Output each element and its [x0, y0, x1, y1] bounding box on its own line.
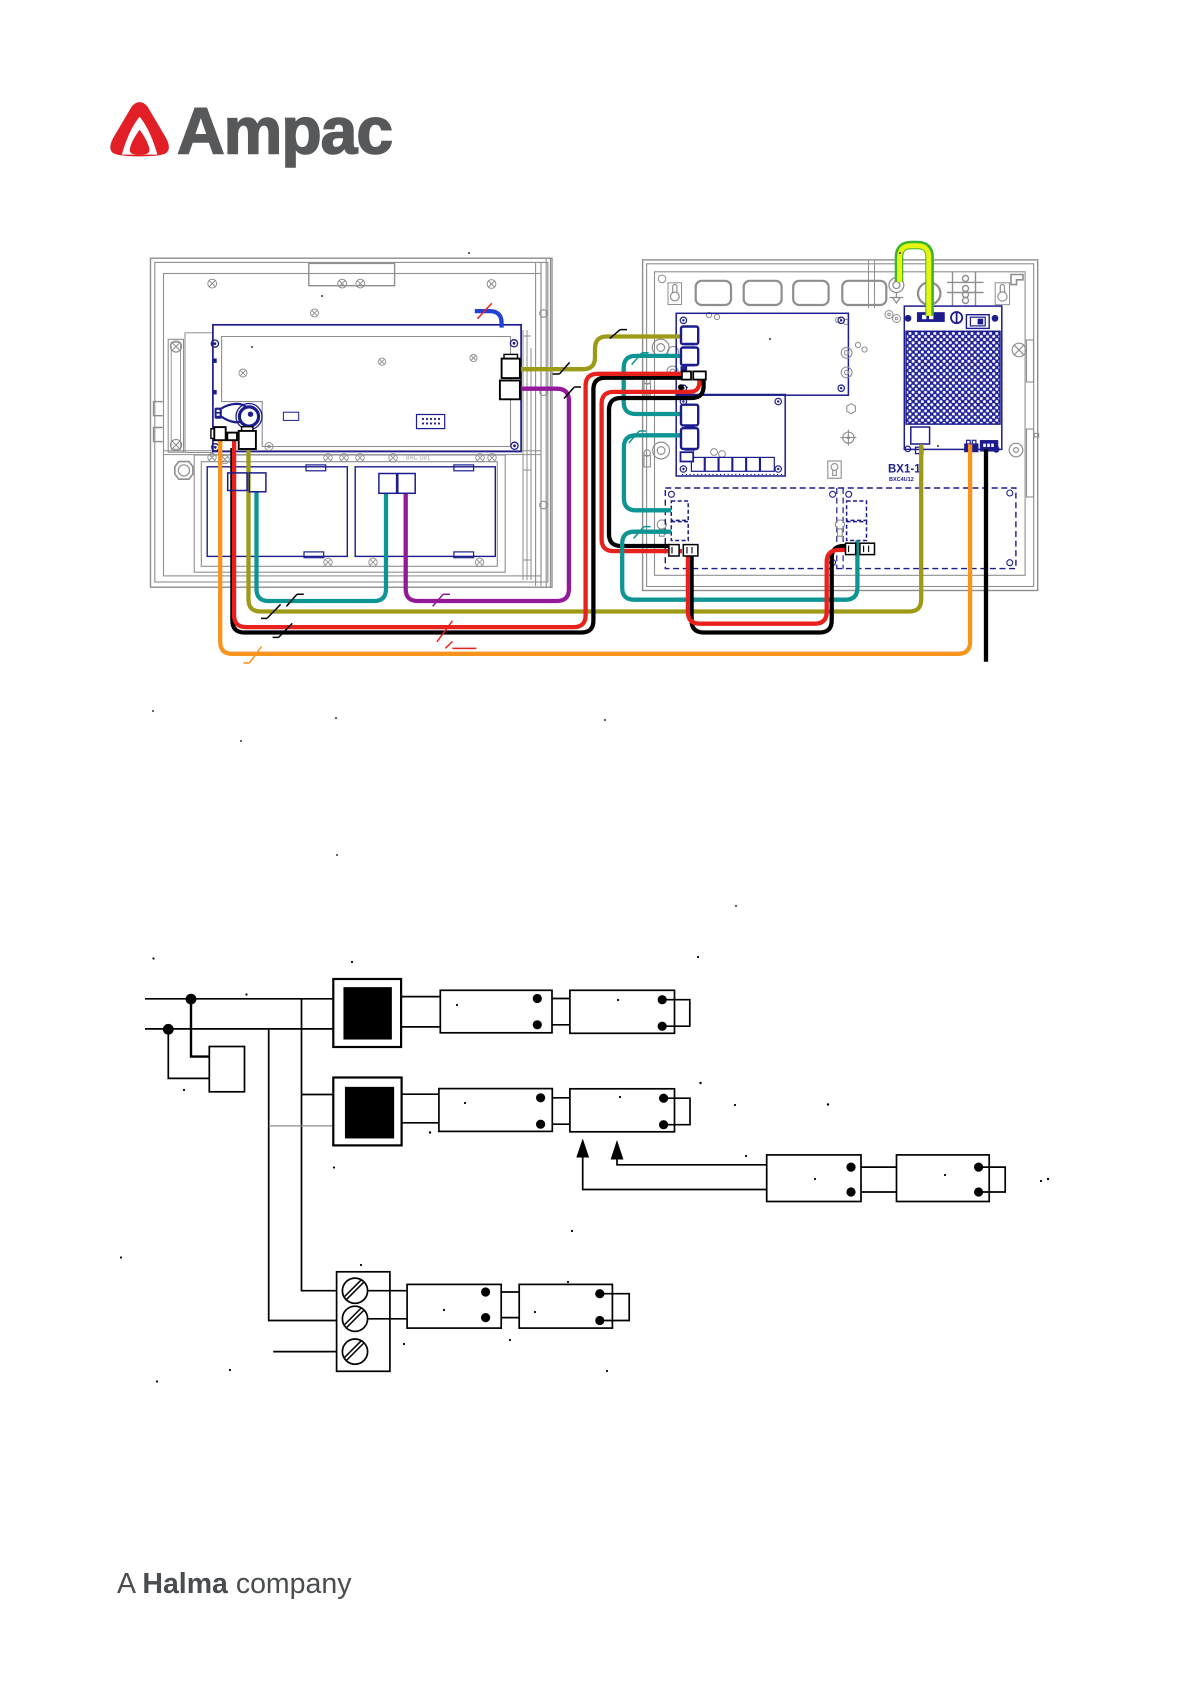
wire from junction 1 to EOL box	[191, 999, 209, 1057]
PCB mount hole BR	[511, 442, 518, 449]
battery tray outer	[194, 455, 505, 572]
terminal screw 1	[342, 1278, 367, 1303]
battery 1 top tab	[306, 465, 326, 471]
battery 2	[355, 467, 495, 557]
top-right screw	[487, 280, 496, 289]
wire module2 top input	[302, 1094, 334, 1096]
marker on purple	[564, 387, 581, 399]
detector base 1A	[440, 990, 552, 1033]
wire orange aux power	[220, 440, 970, 654]
enclosure outer border	[151, 258, 553, 587]
battery2 spade red	[846, 543, 856, 554]
rail screw top	[170, 341, 181, 352]
panel2 small connector below c5	[681, 452, 694, 461]
enclosure mid border	[155, 262, 548, 582]
keyhole left	[668, 283, 682, 305]
PSU switch	[966, 315, 989, 329]
PCB right connector cc2	[500, 381, 520, 400]
wire 2A to 2B	[552, 1098, 570, 1124]
screws left of PSU	[885, 311, 901, 323]
cable break markers	[243, 303, 650, 663]
battery2 spade black	[860, 543, 875, 554]
terminal screw 2	[342, 1306, 367, 1331]
detector base 1B	[570, 990, 675, 1033]
gray screw right of PCB bottom	[265, 443, 273, 451]
right washer lower	[1009, 443, 1023, 457]
wire loop - line 2	[145, 1028, 333, 1030]
panel2 connector c5	[681, 428, 698, 449]
battery 1	[207, 467, 347, 557]
CAD point specks	[120, 956, 1049, 1383]
enclosure outer border	[643, 260, 1038, 591]
wire TB1 to detector 4A bottom	[368, 1318, 408, 1320]
tab screw left	[338, 279, 347, 288]
enclosure mid border	[647, 264, 1034, 587]
marker on olive O1 upper	[610, 330, 627, 339]
panel screw above PCB	[311, 309, 319, 317]
left wall stud 1	[644, 378, 650, 395]
PSU top corner screws	[905, 315, 912, 322]
sounder horn	[215, 404, 262, 430]
detector base 2B	[570, 1089, 675, 1132]
wire earth green-yellow	[899, 245, 930, 316]
PCB screws gray	[239, 354, 477, 377]
hinge bolt 2	[540, 388, 548, 396]
keyhole right	[995, 283, 1009, 305]
detector base 2A	[439, 1089, 552, 1132]
navy latch below c2	[681, 366, 688, 372]
center target circle	[840, 430, 856, 446]
left PCB terminal t1	[211, 429, 214, 439]
Ampac flame icon	[110, 102, 169, 156]
battery 2 top tab	[454, 465, 474, 471]
hinge bolt 1	[540, 310, 548, 318]
battery dashed divider	[837, 488, 843, 569]
center hexagon	[847, 404, 856, 414]
battery1 terminal A	[228, 473, 247, 491]
node junction 2	[163, 1024, 174, 1035]
detector base 3B	[897, 1155, 990, 1202]
small screw pair B	[706, 312, 719, 319]
PCB2 loop board	[676, 395, 785, 477]
bottom center screws	[711, 449, 726, 458]
wire teal TL battery link left panel	[257, 492, 387, 601]
wire olive O2 PCB to PSU via bottom	[249, 444, 922, 611]
PCB display plate (gray)	[222, 337, 511, 447]
rail screw bottom	[170, 439, 181, 450]
knockout circle center dot	[928, 292, 931, 295]
small washer near c3	[667, 366, 678, 377]
wire black PSU dc down	[984, 449, 988, 661]
battery dashed outline	[665, 488, 1016, 569]
enclosure inner frame	[164, 274, 542, 576]
wire purple battery2 to PCB	[406, 389, 569, 601]
right panel navy parts	[665, 313, 1016, 568]
wire black battery link	[692, 546, 852, 633]
wire red battery link	[688, 550, 848, 624]
right hinge plates	[1027, 340, 1039, 497]
isolator module M1	[333, 979, 401, 1047]
panel2 connector c4	[681, 405, 698, 426]
wire TB1 to detector 4A top	[368, 1290, 408, 1292]
hinge column right side	[536, 258, 551, 587]
EOL loop 3B	[979, 1167, 1006, 1192]
svg-text:A Halma company: A Halma company	[117, 1568, 352, 1600]
knockout 4	[842, 281, 886, 305]
fold line screws	[208, 453, 496, 463]
PCB1 right posts	[841, 347, 852, 377]
wire blue network stub	[475, 311, 502, 328]
marker on teal TL	[286, 594, 303, 606]
PCB1 controller board	[676, 313, 848, 395]
left mounting rail	[168, 339, 183, 452]
battery tray inner	[201, 462, 497, 567]
marker on olive O2	[261, 604, 281, 618]
PCB2 terminal strip	[691, 457, 774, 471]
PSU small lower box	[916, 447, 923, 453]
PSU top connector	[918, 313, 944, 321]
knockout 1	[696, 281, 731, 305]
svg-text:Ampac: Ampac	[177, 94, 392, 168]
wire module2 bottom input	[269, 1125, 334, 1127]
earth symbol	[890, 293, 904, 304]
power supply unit	[904, 306, 1002, 454]
gland plate divider lines	[869, 260, 875, 308]
panel2 connector c1	[681, 327, 698, 345]
earth terminal ladder	[947, 272, 984, 307]
wall bracket upper	[154, 402, 163, 416]
terminal screw 3	[342, 1339, 367, 1364]
marker on teal T3	[634, 527, 651, 539]
hinge bolt 3	[540, 501, 548, 509]
door fold lines	[523, 330, 531, 580]
panel2 power connector c3	[682, 371, 706, 379]
battery 2 bottom tab	[454, 552, 474, 558]
earth stud	[889, 278, 904, 293]
battery1 terminal B	[249, 473, 266, 492]
detector base 4B	[519, 1284, 612, 1328]
enclosure inner frame	[655, 272, 1026, 576]
inner corner screws	[658, 275, 666, 283]
EOL loop 4B	[600, 1294, 629, 1321]
wire M2 to detector 2A	[402, 1093, 439, 1095]
marker on purple bottom	[433, 594, 450, 606]
wire 3A to 3B	[861, 1167, 897, 1192]
top-right corner bracket	[1011, 275, 1023, 285]
marker on red R1 bottom	[437, 621, 476, 649]
marker on teal T1	[632, 353, 649, 365]
left wall gland lower	[653, 442, 670, 459]
svg-text:BX1-1: BX1-1	[888, 464, 921, 476]
small screw pair A	[855, 342, 867, 352]
left wall stud 2	[644, 450, 650, 467]
knockout 3	[793, 281, 828, 305]
PSU screw left	[905, 446, 911, 452]
detector base 4A	[407, 1284, 501, 1328]
PCB mount hole TR	[510, 340, 517, 347]
battery2 terminal B	[398, 474, 415, 494]
hex cable gland	[175, 462, 193, 480]
PCB mount hole BL	[212, 444, 219, 451]
detector base 3A	[767, 1155, 861, 1202]
wire red R1 left panel to PCB1	[234, 374, 682, 627]
svg-text:BXC4U12: BXC4U12	[889, 477, 914, 483]
PSU dc connector black	[981, 441, 998, 451]
wire black B1 left panel to PCB1	[232, 378, 682, 633]
wire 4A to 4B	[501, 1292, 519, 1318]
node junction 1	[186, 994, 197, 1005]
right washer upper	[1012, 343, 1026, 357]
left PCB terminal t3	[242, 427, 253, 431]
wire red battery pair2	[602, 380, 700, 551]
knockout 2	[744, 281, 782, 305]
PCB1 mount holes	[680, 317, 844, 391]
wire M1 to detector 1A	[401, 996, 440, 998]
PCB2 pads dotted row	[682, 474, 784, 476]
wire teal T1 PCB1 to PCB2 link	[624, 356, 681, 414]
marker on blue wire	[478, 303, 492, 319]
panel2 connector c2	[681, 348, 698, 366]
small washer above teal	[668, 347, 679, 358]
battery screws navy	[668, 490, 1012, 566]
terminal block TB1	[337, 1272, 390, 1372]
battery1 terminal boxes dashed	[671, 501, 688, 520]
DIP connector block	[417, 415, 445, 429]
flame white cutout	[122, 117, 158, 155]
small screw pair C	[835, 317, 848, 324]
battery2 terminal boxes dashed	[847, 501, 867, 520]
wire olive O1 PCB to panel2	[520, 337, 681, 370]
wire teal T2 PCB2 to battery1	[624, 435, 681, 510]
PCB2 mount holes	[680, 398, 781, 472]
PSU fuse circle	[951, 311, 962, 323]
door fold top marks	[523, 336, 531, 560]
tab screw right	[356, 279, 365, 288]
arrow 2 to remote indicator	[617, 1159, 767, 1165]
EOL resistor box	[209, 1047, 244, 1092]
gray specks upper diagram	[152, 252, 939, 907]
left PCB terminal t2	[227, 433, 237, 441]
wire M2 to detector 2A lower	[402, 1122, 439, 1124]
isolator module M2	[333, 1078, 401, 1146]
PSU outline	[904, 306, 1002, 449]
stub wire into screw 3	[273, 1351, 336, 1353]
keyhole left wall mid	[657, 520, 666, 536]
battery1 spade black	[669, 545, 679, 556]
marker on olive O1 horizontal	[553, 362, 570, 374]
top-left screw	[208, 279, 217, 288]
marker on black B1 bottom	[273, 623, 293, 637]
wire from junction 2 to EOL box	[168, 1029, 209, 1078]
arrow 1 to remote indicator	[583, 1157, 767, 1190]
wire 1A to 1B	[552, 999, 570, 1025]
wire teal T3 battery1 to battery2	[622, 532, 857, 600]
PCB right connector cc1	[504, 354, 518, 358]
bottom keyhole bracket	[828, 461, 841, 478]
keyhole on divider	[835, 520, 844, 536]
battery 1 bottom tab	[304, 552, 324, 558]
EOL loop 2B	[664, 1098, 690, 1125]
PSU ventilation grille	[906, 331, 1000, 424]
battery2 terminal A	[379, 474, 397, 494]
left panel navy parts	[207, 325, 521, 558]
wire black battery pair2	[609, 380, 704, 546]
flame inner teardrop	[130, 130, 150, 155]
screw dot below c3	[678, 384, 684, 390]
EOL loop 1B	[662, 1000, 690, 1026]
svg-text:8AC U#1: 8AC U#1	[406, 456, 431, 462]
wall bracket lower	[154, 428, 163, 442]
PSU output connector white	[911, 427, 930, 444]
chassis plate strip left of PCB	[185, 333, 213, 453]
wire riser to zone 2 top	[302, 999, 337, 1291]
PCB edge pads	[213, 359, 216, 363]
wire loop + line 1	[145, 998, 333, 1000]
PSU screw right of connector	[993, 447, 999, 453]
left wall gland upper	[652, 339, 669, 356]
marker on orange	[243, 646, 261, 663]
main PCB outline	[213, 325, 521, 452]
wire M1 to detector 1A lower	[401, 1026, 440, 1028]
knockout circle	[918, 282, 940, 304]
battery1 spade red	[683, 545, 698, 556]
PCB mount hole TL	[211, 340, 218, 347]
DIP block small	[283, 412, 298, 420]
tray bottom screws	[324, 558, 484, 566]
PSU orange connector	[965, 440, 978, 451]
wire riser to zone 2 bottom	[269, 1029, 337, 1321]
top mounting tab	[309, 263, 395, 285]
marker on teal T2	[629, 431, 646, 443]
connectors drawn over wires	[211, 327, 875, 557]
fold line below PCB	[164, 451, 542, 455]
